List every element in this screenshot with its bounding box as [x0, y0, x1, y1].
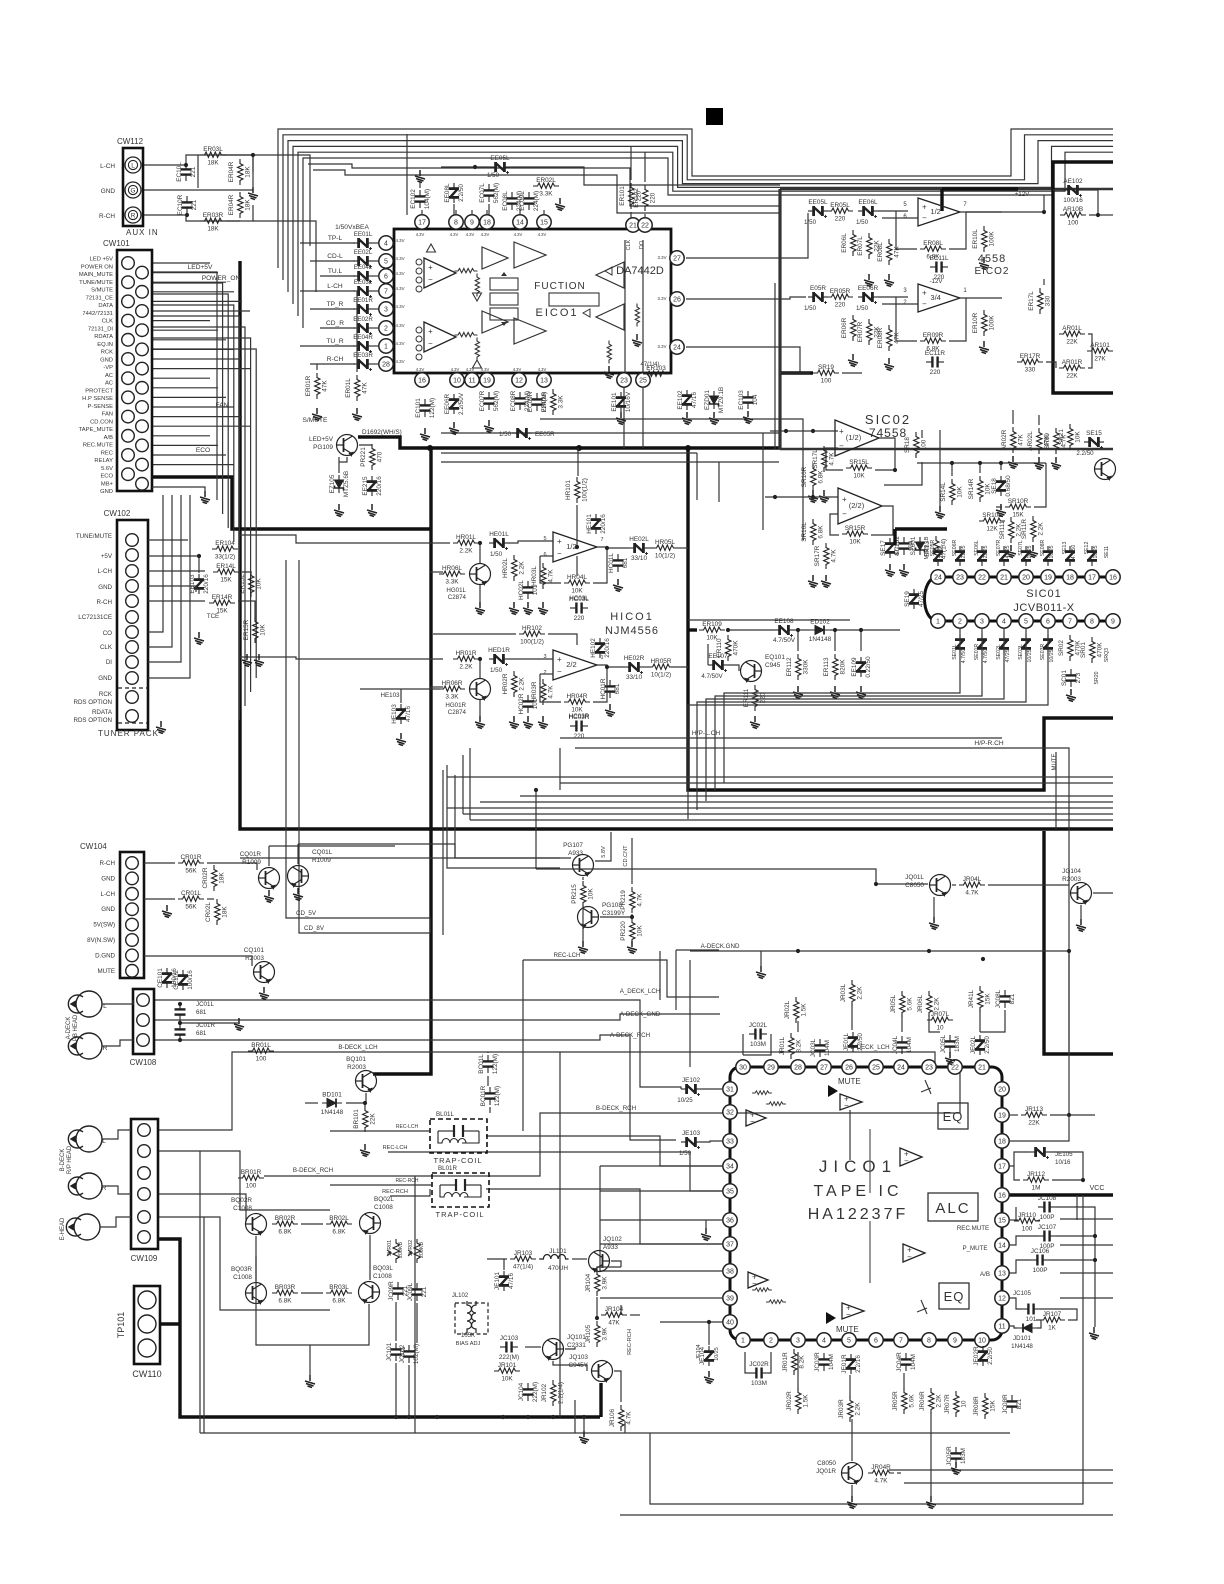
svg-text:EC07L: EC07L [479, 183, 486, 203]
svg-text:EC101: EC101 [415, 398, 422, 418]
svg-text:+: + [557, 537, 562, 546]
capacitor EE08L [449, 183, 459, 203]
svg-text:220/16: 220/16 [604, 638, 611, 658]
ground EE109 [856, 686, 866, 699]
wire [921, 430, 923, 438]
junction [1096, 213, 1100, 217]
op-amp JIC internal 6 [842, 1303, 864, 1319]
svg-text:25: 25 [872, 1065, 880, 1072]
svg-text:BR03R: BR03R [275, 1284, 296, 1291]
ground JR06R [926, 1496, 936, 1509]
wire [745, 1352, 750, 1373]
svg-text:+12V: +12V [1015, 191, 1030, 198]
wire hp frame2 [455, 775, 560, 858]
wire [346, 1102, 365, 1104]
capacitor EE04R [353, 341, 373, 353]
svg-text:A-DECK_RCH: A-DECK_RCH [610, 1032, 650, 1039]
wire [593, 667, 607, 702]
svg-text:47K: 47K [894, 246, 901, 258]
junction [796, 949, 800, 953]
wire SIC01 fan 4 [697, 629, 1026, 810]
svg-text:D1692(WH/S): D1692(WH/S) [362, 429, 402, 436]
svg-text:3: 3 [796, 1338, 800, 1345]
ground ER01L [352, 408, 362, 421]
wire JIC left feed y1244 [600, 1243, 722, 1245]
svg-text:HR102: HR102 [522, 625, 542, 632]
wire [540, 555, 553, 557]
svg-text:JC02L: JC02L [749, 1022, 768, 1029]
svg-text:JR41L: JR41L [968, 989, 975, 1008]
svg-text:11: 11 [468, 378, 475, 385]
transistor PG108 [578, 907, 599, 928]
svg-text:24: 24 [897, 1065, 905, 1072]
svg-text:−: − [904, 1156, 909, 1165]
svg-text:103M: 103M [751, 1380, 767, 1387]
svg-text:13: 13 [998, 1271, 1006, 1278]
resistor JR101 [494, 1368, 520, 1373]
svg-text:EE01R: EE01R [353, 297, 373, 304]
capacitor HC03R [570, 721, 588, 732]
arrow down [473, 293, 482, 301]
pin 25 [636, 373, 650, 387]
svg-text:4.7K: 4.7K [874, 1478, 888, 1485]
junction [605, 665, 609, 669]
svg-text:103M: 103M [750, 1041, 766, 1048]
resistor CR02R [212, 865, 217, 891]
svg-text:33(1/2): 33(1/2) [215, 554, 235, 561]
junction [178, 1038, 182, 1042]
svg-text:5V(SW): 5V(SW) [93, 922, 115, 929]
svg-text:8V(N.SW): 8V(N.SW) [87, 937, 115, 944]
svg-text:BQ03L: BQ03L [373, 1265, 393, 1272]
svg-text:2/2: 2/2 [566, 660, 576, 669]
transistor EQ101 [741, 661, 762, 682]
svg-text:-VP: -VP [103, 365, 113, 371]
svg-text:2.2(1/4): 2.2(1/4) [558, 1382, 565, 1404]
wire CW101 stub 2 [152, 272, 218, 274]
ground HR03L [538, 602, 548, 615]
connector pin CW104-2 [126, 872, 139, 885]
pin JIC01-1 [736, 1333, 750, 1347]
resistor HR01R [453, 656, 479, 661]
svg-text:REC.MUTE: REC.MUTE [957, 1225, 989, 1232]
svg-text:220: 220 [650, 192, 657, 203]
svg-text:5.6K: 5.6K [907, 997, 914, 1011]
resistor SR10R [1005, 504, 1031, 509]
junction [833, 628, 837, 632]
svg-text:222(M): 222(M) [532, 1382, 539, 1402]
svg-text:GND: GND [101, 188, 116, 195]
svg-text:4.3V: 4.3V [416, 367, 425, 372]
wire riser 443 [442, 770, 444, 935]
svg-text:EICO1: EICO1 [535, 307, 578, 319]
wire [882, 303, 918, 305]
svg-text:ER101: ER101 [619, 186, 626, 206]
svg-text:JR07L: JR07L [931, 1011, 950, 1018]
wire [979, 463, 981, 473]
svg-text:BQ02R: BQ02R [231, 1197, 252, 1204]
wire thick SC102 left [893, 529, 896, 545]
svg-text:10: 10 [961, 1400, 968, 1408]
capacitor EE103 [194, 574, 204, 594]
junction [981, 957, 985, 961]
pin 24 [670, 340, 684, 354]
wire left vert long [559, 1052, 561, 1417]
wire JIC right feed y1219 [1060, 1218, 1113, 1220]
wire [1010, 1260, 1031, 1273]
svg-text:AC: AC [105, 373, 113, 379]
resistor internal 6 [607, 340, 611, 363]
svg-text:MAIN_MUTE: MAIN_MUTE [79, 272, 113, 278]
svg-text:EQ.IN: EQ.IN [97, 342, 113, 348]
svg-text:ER17L: ER17L [1028, 291, 1035, 311]
wire pin23 drop [623, 388, 625, 448]
junction [1042, 210, 1046, 214]
svg-text:CD.CON: CD.CON [90, 419, 113, 425]
capacitor JE02L [975, 1035, 985, 1055]
svg-text:ER04R: ER04R [228, 194, 235, 215]
resistor JR07L [927, 1017, 953, 1022]
svg-text:HICO1: HICO1 [610, 611, 654, 623]
svg-text:BC01R: BC01R [480, 1085, 487, 1106]
connector pin CW108-3 [137, 1034, 150, 1047]
pin JIC01-2 [764, 1333, 778, 1347]
ground SR14L [935, 506, 945, 519]
svg-text:CD_8V: CD_8V [304, 925, 325, 932]
resistor JR103 [510, 1256, 536, 1261]
capacitor BL01L cap [438, 1125, 479, 1143]
svg-text:18K: 18K [245, 199, 252, 211]
pin node [416, 327, 422, 333]
connector pin CW101-10 [136, 343, 149, 356]
svg-text:1N4148: 1N4148 [1011, 1343, 1033, 1350]
resistor ER08R [887, 325, 892, 351]
wire [624, 1421, 626, 1433]
svg-text:SE11: SE11 [1104, 546, 1110, 558]
op-amp JIC internal 1 [746, 1110, 766, 1126]
svg-text:21: 21 [978, 1065, 986, 1072]
svg-text:PB HEAD: PB HEAD [73, 1014, 79, 1041]
wire [614, 1371, 621, 1402]
wire [728, 665, 739, 671]
connector pin CW101-18 [136, 420, 149, 433]
svg-text:SRQ3: SRQ3 [1104, 648, 1110, 662]
wire [597, 665, 624, 667]
svg-text:22: 22 [641, 223, 649, 230]
capacitor JE103 [681, 1137, 701, 1149]
wire CW101 bundle 7 [152, 338, 251, 692]
svg-text:C8050: C8050 [905, 882, 924, 889]
svg-text:1M: 1M [1032, 1185, 1041, 1192]
wire [540, 556, 561, 583]
svg-text:MUTE: MUTE [97, 968, 115, 975]
transistor JQ01L [930, 875, 951, 896]
svg-text:A933: A933 [603, 1244, 618, 1251]
pin SIC01-6 [1041, 614, 1055, 628]
wire [102, 1130, 131, 1139]
svg-text:JE103: JE103 [682, 1130, 701, 1137]
wire [441, 166, 490, 168]
connector pin CW104-6 [126, 934, 139, 947]
svg-text:681: 681 [196, 1009, 207, 1016]
wire [1053, 189, 1063, 191]
wire pin26 to EIC02 [686, 297, 806, 299]
resistor internal 4 [475, 337, 479, 360]
svg-text:4.7/50: 4.7/50 [1071, 545, 1077, 560]
wire JIC internal [869, 1221, 871, 1283]
resistor HR102 [519, 631, 545, 636]
svg-text:SE06L: SE06L [974, 540, 980, 556]
wire CW101 bundle 5 [152, 316, 239, 720]
svg-text:2.2K: 2.2K [1038, 522, 1045, 536]
svg-text:AR01L: AR01L [1062, 325, 1082, 332]
wire REC-LCH drop [522, 960, 524, 1131]
wire [583, 1417, 585, 1431]
resistor SR16R [811, 464, 816, 490]
svg-text:CD.CNT: CD.CNT [623, 845, 629, 867]
pin 27 [670, 251, 684, 265]
wire A-DECK-LCH [154, 1000, 676, 1087]
svg-text:ECO: ECO [100, 474, 113, 480]
capacitor HE01L [489, 538, 509, 550]
svg-text:CR01L: CR01L [181, 890, 201, 897]
wire thick mid bus [688, 448, 1113, 790]
wire [1012, 410, 1014, 424]
svg-text:JR102: JR102 [541, 1383, 548, 1402]
wire [395, 1302, 397, 1341]
ground EC07R [484, 420, 494, 433]
resistor ER06R [851, 315, 856, 341]
wire [148, 570, 205, 572]
svg-text:221: 221 [421, 1286, 428, 1297]
transistor JQ101 [543, 1339, 564, 1360]
wire [797, 1021, 799, 1032]
capacitor EC11L [930, 262, 948, 273]
svg-text:HG01R: HG01R [445, 702, 466, 709]
svg-text:4.3V: 4.3V [466, 232, 475, 237]
svg-text:72131_CE: 72131_CE [86, 295, 114, 301]
wire internal 25 [642, 240, 644, 372]
svg-text:EC07R: EC07R [479, 390, 486, 411]
svg-text:3.3V: 3.3V [657, 296, 666, 301]
svg-text:BR03L: BR03L [329, 1284, 349, 1291]
svg-text:JR113: JR113 [1025, 1106, 1043, 1113]
junction [726, 628, 730, 632]
wire SIC02 in2 [765, 496, 838, 498]
svg-text:TCE: TCE [207, 613, 219, 620]
resistor HR05R [648, 664, 674, 669]
wire CW101 stub 4 [152, 291, 234, 293]
capacitor SC102 [899, 537, 910, 555]
wire [356, 291, 358, 372]
capacitor SE07L [1021, 546, 1031, 566]
svg-text:56K: 56K [185, 904, 197, 911]
ground CR [162, 905, 172, 918]
resistor JR01R [792, 1349, 797, 1375]
svg-text:HR101: HR101 [565, 480, 572, 500]
svg-text:A-DECK_GND: A-DECK_GND [620, 1011, 661, 1018]
svg-text:16: 16 [998, 1193, 1006, 1200]
pin 8 [449, 215, 463, 229]
svg-text:R2003: R2003 [347, 1064, 366, 1071]
svg-text:220: 220 [835, 216, 846, 223]
svg-text:GND: GND [98, 584, 112, 591]
svg-text:JC09R: JC09R [388, 1281, 395, 1301]
svg-text:104: 104 [752, 394, 759, 405]
resistor ER14R [209, 600, 235, 605]
block EQ 1 [938, 1103, 968, 1129]
connector CW108 [133, 989, 154, 1054]
connector pin CW102-3 [126, 565, 139, 578]
svg-text:EC09R: EC09R [527, 391, 534, 412]
pin 28 [379, 357, 393, 371]
svg-text:ECO: ECO [196, 447, 210, 454]
wire mute [1055, 752, 1057, 829]
capacitor SE07R [999, 546, 1009, 566]
wire [688, 619, 850, 621]
wire [352, 275, 355, 277]
capacitor SE13 [1065, 546, 1075, 566]
block rect 2 [490, 293, 518, 305]
wire [373, 327, 379, 329]
svg-text:220/16: 220/16 [376, 476, 383, 496]
ground SR111 [1006, 545, 1016, 558]
svg-text:SE05R: SE05R [930, 540, 936, 557]
resistor ER113 [833, 654, 838, 680]
svg-text:SR14L: SR14L [940, 482, 947, 502]
op-amp JIC internal 5 [748, 1272, 768, 1288]
svg-text:100(1/2): 100(1/2) [582, 478, 589, 502]
svg-text:B-DECK: B-DECK [60, 1149, 66, 1172]
junction [435, 1415, 439, 1419]
wire [298, 844, 455, 858]
svg-text:100: 100 [246, 1183, 257, 1190]
ground JG104 [1076, 919, 1086, 932]
wire trap L out [486, 1136, 722, 1166]
wire bottom rail 1 riser [199, 1151, 201, 1433]
capacitor JC106 [1031, 1255, 1049, 1266]
svg-text:+: + [428, 263, 433, 272]
svg-text:3.3K: 3.3K [558, 395, 565, 409]
svg-text:10K: 10K [637, 925, 644, 937]
ground PR220 [627, 941, 637, 954]
svg-text:4.7/50: 4.7/50 [983, 649, 989, 664]
svg-text:BR01L: BR01L [251, 1042, 271, 1049]
wire [479, 700, 481, 716]
ground JE104 [704, 1371, 714, 1384]
ground ER10R [979, 341, 989, 354]
svg-text:EE215: EE215 [362, 476, 369, 496]
svg-text:28: 28 [794, 1065, 802, 1072]
svg-text:DA7442D: DA7442D [616, 265, 664, 277]
capacitor EE107 [708, 660, 728, 672]
svg-text:R2003: R2003 [1062, 876, 1081, 883]
svg-text:26: 26 [845, 1065, 853, 1072]
capacitor SE15 [1084, 437, 1104, 449]
svg-text:5: 5 [384, 259, 388, 266]
wire thick right frame [1053, 162, 1113, 393]
svg-text:ER104: ER104 [215, 540, 235, 547]
svg-text:2: 2 [958, 619, 962, 626]
resistor JR107 [1039, 1317, 1065, 1322]
wire JIC right feed y1298 [1060, 1297, 1113, 1299]
svg-text:CW110: CW110 [132, 1369, 161, 1379]
svg-text:AR10B: AR10B [1063, 206, 1083, 213]
block rect 3 [490, 308, 518, 320]
wire [708, 1322, 710, 1345]
svg-text:BR02L: BR02L [329, 1215, 349, 1222]
transistor BQ02L [360, 1213, 381, 1234]
junction [1081, 1178, 1085, 1182]
svg-text:ER14L: ER14L [216, 563, 236, 570]
svg-text:AE102: AE102 [1063, 178, 1083, 185]
capacitor EC10L [181, 163, 192, 181]
wire [631, 942, 633, 945]
wire [660, 1321, 722, 1323]
svg-text:REC-LCH: REC-LCH [383, 1145, 408, 1151]
wire CW101 stub 7 [152, 320, 210, 322]
inductor JL102 [467, 1301, 476, 1333]
capacitor SE03R [1043, 634, 1053, 654]
wire A-DECK.GND bus [690, 950, 1069, 952]
op-amp internal 1 [482, 247, 508, 269]
wire [268, 846, 270, 866]
svg-text:39: 39 [726, 1296, 734, 1303]
svg-text:HC02R: HC02R [518, 693, 525, 714]
wire [373, 345, 379, 347]
svg-text:ER10R: ER10R [972, 312, 979, 333]
svg-text:10(1/2): 10(1/2) [651, 672, 671, 679]
svg-text:D.GND: D.GND [95, 952, 115, 959]
resistor ER15L [249, 571, 254, 597]
svg-text:JC105: JC105 [1013, 1290, 1031, 1297]
wire [1083, 190, 1098, 215]
wire [842, 372, 862, 374]
svg-text:13: 13 [540, 378, 548, 385]
op-amp SIC02 A [835, 420, 879, 456]
svg-text:CW108: CW108 [130, 1058, 157, 1067]
svg-text:JQ01L: JQ01L [905, 874, 924, 881]
wire REC-LCH [388, 1152, 722, 1191]
svg-text:3.3V: 3.3V [657, 344, 666, 349]
svg-text:273: 273 [1075, 672, 1082, 683]
wire [593, 548, 607, 583]
wire [930, 1412, 932, 1496]
wire [611, 1261, 621, 1267]
junction [1093, 1234, 1097, 1238]
pin SIC01-4 [997, 614, 1011, 628]
wire [949, 212, 966, 249]
wire [548, 634, 577, 645]
svg-text:SR21: SR21 [1058, 429, 1065, 445]
wire L-CH [300, 290, 352, 292]
svg-text:10/25: 10/25 [677, 1097, 693, 1104]
pin JIC01-33 [723, 1134, 737, 1148]
svg-text:AR01R: AR01R [1062, 359, 1083, 366]
capacitor EE108 [774, 625, 794, 637]
wire [574, 1400, 576, 1433]
arrow swap [501, 272, 507, 326]
svg-text:100: 100 [256, 1056, 267, 1063]
svg-text:CR02R: CR02R [202, 867, 209, 888]
svg-text:21: 21 [1000, 575, 1008, 582]
pin 13 [537, 373, 551, 387]
svg-text:ER02R: ER02R [541, 391, 548, 412]
svg-text:SR10R: SR10R [1008, 498, 1029, 505]
svg-text:S/MUTE: S/MUTE [91, 288, 113, 294]
svg-text:RCK: RCK [99, 691, 113, 698]
ground HC02R [523, 716, 533, 729]
